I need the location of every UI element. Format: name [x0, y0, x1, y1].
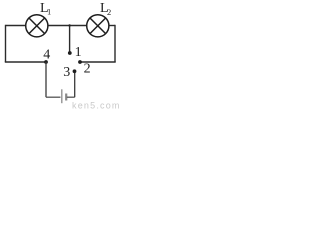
- wire: left vertical: [5, 25, 7, 62]
- svg-text:2: 2: [84, 61, 91, 76]
- wire: center vertical from top wire: [69, 26, 71, 53]
- wire: vertical up to node 3: [74, 72, 76, 97]
- node 1: [68, 51, 72, 55]
- node 2: [78, 60, 82, 64]
- svg-text:ken5.com: ken5.com: [72, 100, 120, 110]
- battery B1 long plate: [61, 89, 63, 103]
- wire: left horizontal to node 4: [5, 61, 46, 63]
- wire: bottom right from battery: [67, 96, 75, 98]
- svg-text:2: 2: [107, 7, 111, 17]
- svg-text:1: 1: [47, 6, 51, 16]
- node 4: [44, 60, 48, 64]
- lamp L2: [87, 15, 109, 37]
- battery B1 short plate: [65, 94, 67, 101]
- wire: between lamps: [48, 25, 86, 27]
- junction on top wire: [68, 24, 70, 26]
- wire: lamp L2 right lead: [109, 25, 115, 27]
- lamp L1: [26, 15, 48, 37]
- wire: right vertical: [114, 25, 116, 62]
- svg-text:4: 4: [43, 48, 50, 63]
- wire: top left lead to lamp L1: [6, 25, 26, 27]
- wire: vertical from node 4 down to battery: [45, 62, 47, 97]
- wire: right horizontal to node 2: [80, 61, 115, 63]
- node 3: [73, 69, 77, 73]
- svg-text:3: 3: [63, 65, 70, 80]
- svg-text:1: 1: [75, 45, 82, 60]
- wire: bottom left to battery: [46, 96, 61, 98]
